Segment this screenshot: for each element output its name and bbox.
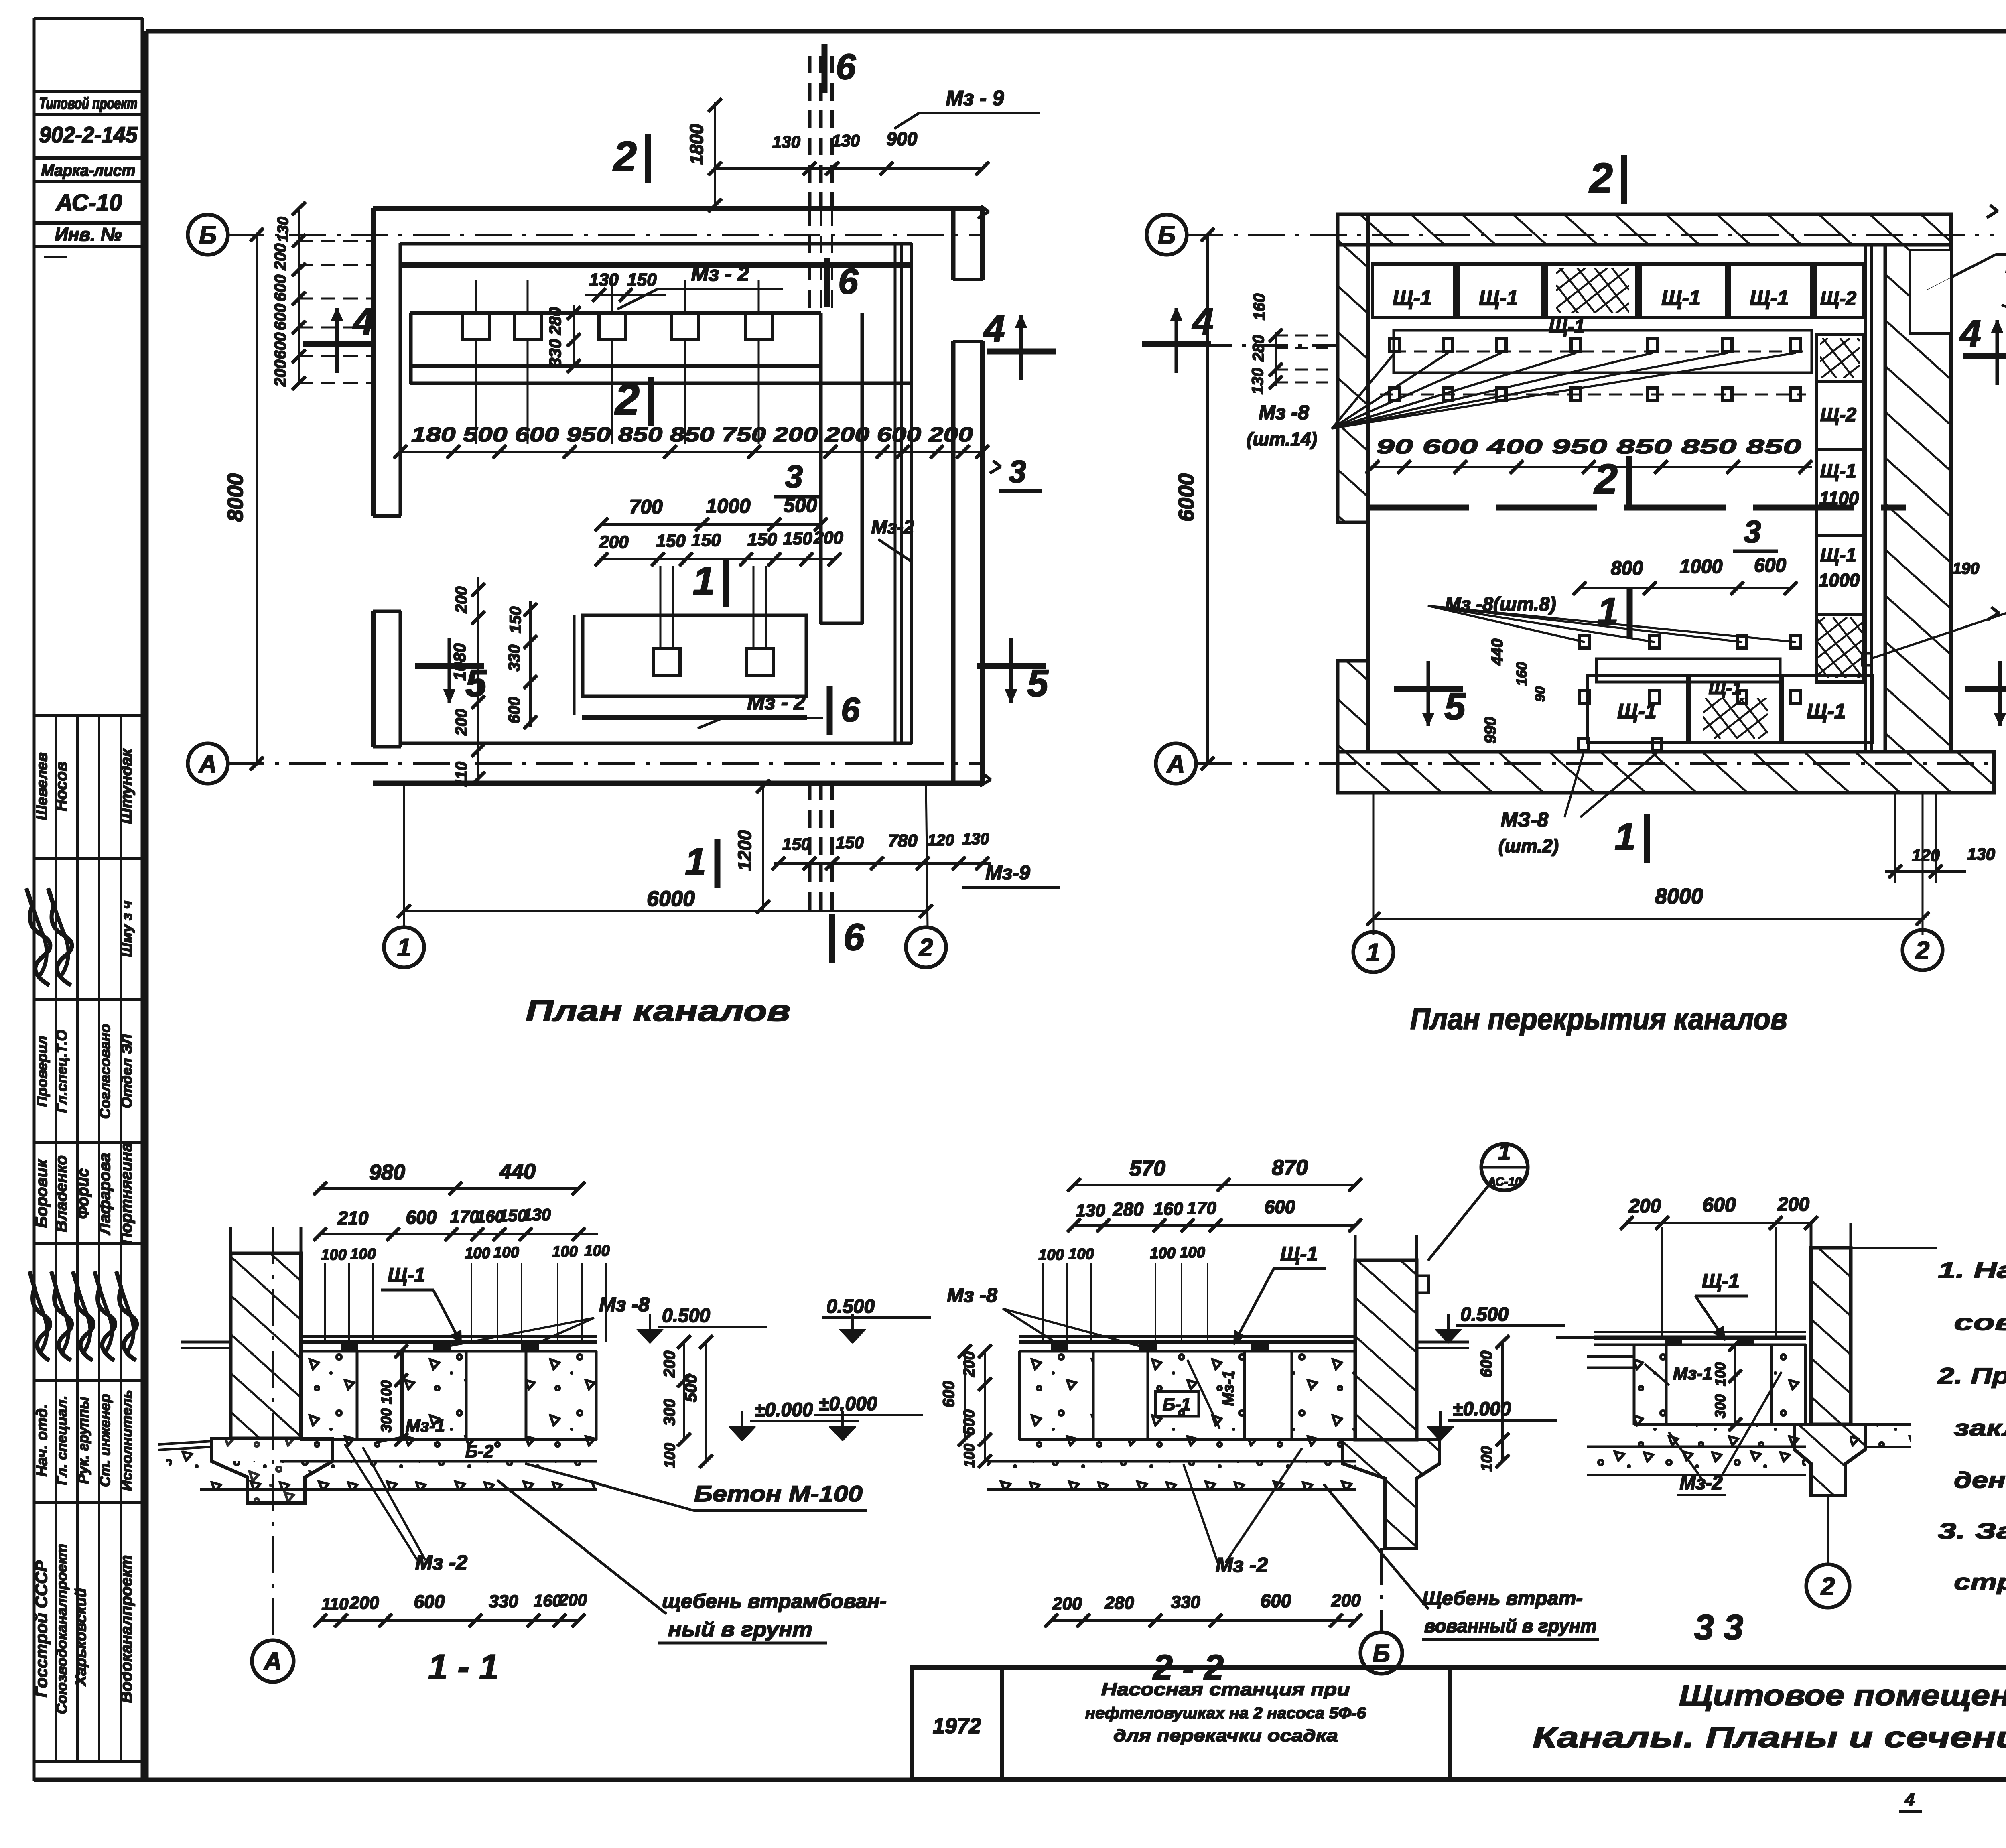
svg-text:150: 150: [747, 530, 777, 549]
svg-text:1: 1: [685, 841, 706, 883]
svg-text:200: 200: [272, 360, 289, 387]
svg-text:нефтеловушках на 2 насоса 5Ф-6: нефтеловушках на 2 насоса 5Ф-6: [1085, 1704, 1366, 1722]
svg-text:Штундак: Штундак: [118, 748, 135, 824]
svg-text:600: 600: [414, 1591, 445, 1612]
svg-text:Союзводоканалпроект: Союзводоканалпроект: [53, 1544, 70, 1714]
svg-text:600: 600: [940, 1381, 958, 1408]
svg-text:150: 150: [507, 607, 524, 634]
svg-text:0.500: 0.500: [826, 1296, 875, 1317]
svg-text:160: 160: [1513, 662, 1530, 686]
svg-text:Боровик: Боровик: [33, 1159, 51, 1228]
svg-text:А: А: [263, 1648, 282, 1675]
svg-text:280: 280: [546, 307, 564, 335]
svg-text:Мз-2: Мз-2: [871, 517, 914, 538]
svg-text:Щ-2: Щ-2: [1820, 404, 1856, 426]
svg-text:160: 160: [1251, 294, 1268, 321]
svg-text:160: 160: [534, 1591, 562, 1610]
svg-text:6: 6: [843, 916, 865, 959]
svg-text:6000: 6000: [1174, 473, 1198, 522]
svg-text:Мз-1: Мз-1: [1220, 1370, 1237, 1406]
svg-text:2. При производстве строител: 2. При производстве строительных работ: [1937, 1363, 2006, 1388]
svg-text:Щитовое помещение.: Щитовое помещение.: [1679, 1679, 2006, 1712]
svg-text:600: 600: [1261, 1590, 1291, 1611]
svg-text:3. Закладные марки Мз-1 укл: 3. Закладные марки Мз-1 укладывать: [1938, 1518, 2006, 1543]
svg-text:0.500: 0.500: [1460, 1304, 1509, 1325]
svg-text:Мз -2: Мз -2: [1216, 1554, 1268, 1577]
svg-text:2: 2: [919, 934, 933, 962]
svg-text:100: 100: [378, 1380, 394, 1404]
svg-text:100: 100: [1180, 1244, 1205, 1261]
svg-text:Б: Б: [1373, 1640, 1390, 1667]
svg-text:Носов: Носов: [53, 762, 70, 811]
svg-text:совместно с листами АС-3,: совместно с листами АС-3, АС-14.: [1954, 1310, 2006, 1335]
svg-text:Шевелев: Шевелев: [34, 752, 51, 820]
svg-text:200: 200: [1777, 1194, 1809, 1215]
svg-text:Каналы. Планы и сечения.: Каналы. Планы и сечения.: [1533, 1722, 2006, 1754]
svg-text:Мз-1: Мз-1: [1673, 1364, 1712, 1383]
svg-text:4: 4: [352, 300, 374, 343]
svg-text:(шт.2): (шт.2): [1498, 835, 1559, 856]
svg-text:200: 200: [349, 1593, 379, 1613]
svg-text:180 500 600 950 850 85: 180 500 600 950 850 850 750 200 200 600 …: [411, 423, 973, 446]
svg-text:Щ-1: Щ-1: [1820, 545, 1856, 566]
svg-text:980: 980: [369, 1160, 405, 1184]
svg-text:100: 100: [1478, 1446, 1495, 1471]
svg-text:Щ-1: Щ-1: [1820, 461, 1856, 482]
svg-text:МЗ-8: МЗ-8: [1501, 808, 1548, 831]
svg-text:дением электрика.: дением электрика.: [1954, 1467, 2006, 1493]
svg-text:130: 130: [772, 132, 800, 151]
svg-text:600: 600: [1265, 1196, 1295, 1217]
svg-text:6000: 6000: [647, 887, 695, 911]
svg-text:150: 150: [627, 270, 657, 290]
svg-text:1. Настоящий чертеж рассматр: 1. Настоящий чертеж рассматривать: [1938, 1257, 2006, 1283]
svg-text:Лафарова: Лафарова: [96, 1153, 114, 1236]
svg-text:280: 280: [1250, 335, 1267, 362]
svg-text:Мз - 2: Мз - 2: [691, 262, 749, 286]
svg-text:150: 150: [783, 529, 812, 548]
svg-text:АС-10: АС-10: [1487, 1175, 1522, 1188]
svg-text:3: 3: [1744, 514, 1761, 549]
svg-text:200: 200: [272, 244, 289, 271]
svg-text:2: 2: [1589, 155, 1613, 202]
svg-text:План перекрытия каналов: План перекрытия каналов: [1410, 1002, 1787, 1036]
svg-text:Мз - 9: Мз - 9: [946, 87, 1004, 110]
svg-text:1: 1: [1366, 939, 1380, 967]
svg-text:Щ-1: Щ-1: [1393, 286, 1432, 310]
svg-text:500: 500: [784, 494, 817, 516]
svg-text:130: 130: [832, 131, 860, 150]
svg-text:600: 600: [1702, 1194, 1736, 1216]
svg-text:440: 440: [1488, 639, 1506, 666]
svg-text:Мз-1: Мз-1: [406, 1416, 445, 1436]
svg-text:150: 150: [782, 835, 810, 853]
svg-text:АС-10: АС-10: [55, 190, 122, 216]
svg-text:600: 600: [406, 1207, 437, 1228]
svg-text:Инв. №: Инв. №: [55, 224, 122, 245]
svg-text:200: 200: [1628, 1196, 1661, 1217]
svg-text:6: 6: [838, 262, 859, 302]
svg-text:Мз - 2: Мз - 2: [747, 691, 806, 714]
svg-text:100: 100: [465, 1245, 490, 1262]
svg-text:Водоканалпроект: Водоканалпроект: [118, 1555, 135, 1703]
svg-text:4: 4: [1192, 300, 1214, 343]
svg-text:А: А: [198, 750, 217, 778]
svg-text:3 3: 3 3: [1694, 1607, 1743, 1647]
svg-text:Щ-1: Щ-1: [1807, 700, 1846, 723]
svg-text:570: 570: [1129, 1156, 1165, 1180]
svg-text:для перекачки осадка: для перекачки осадка: [1113, 1726, 1338, 1745]
svg-text:1: 1: [1498, 1139, 1511, 1164]
svg-text:130: 130: [1249, 368, 1267, 395]
svg-text:100: 100: [961, 1444, 977, 1468]
svg-text:1: 1: [1614, 816, 1636, 858]
svg-text:Мз-9: Мз-9: [985, 861, 1030, 884]
svg-text:130: 130: [1967, 845, 1995, 863]
svg-text:0.500: 0.500: [662, 1305, 710, 1326]
svg-text:600: 600: [272, 275, 289, 302]
svg-text:±0.000: ±0.000: [754, 1399, 813, 1421]
svg-text:Гл.спец.Т.О: Гл.спец.Т.О: [53, 1030, 70, 1113]
svg-text:5: 5: [465, 662, 487, 705]
svg-text:130: 130: [589, 270, 619, 290]
svg-text:90 600 400 950 850 850: 90 600 400 950 850 850 850: [1376, 435, 1801, 458]
svg-text:100: 100: [321, 1247, 346, 1263]
svg-text:Щ-1: Щ-1: [1479, 286, 1518, 310]
svg-text:600: 600: [272, 333, 289, 359]
svg-text:Портнягина: Портнягина: [118, 1143, 135, 1244]
svg-text:Мз -8: Мз -8: [1259, 401, 1309, 424]
svg-text:170: 170: [1187, 1198, 1216, 1218]
svg-text:Рук. группы: Рук. группы: [75, 1397, 91, 1484]
svg-text:4: 4: [1904, 1790, 1915, 1809]
svg-text:Щ-1: Щ-1: [388, 1264, 425, 1286]
svg-text:150: 150: [656, 531, 686, 551]
svg-text:1000: 1000: [1680, 556, 1723, 577]
svg-text:200: 200: [1052, 1594, 1082, 1614]
svg-text:Шму з ч: Шму з ч: [118, 900, 135, 957]
svg-text:1000: 1000: [1819, 570, 1860, 591]
svg-text:5: 5: [1444, 685, 1466, 728]
svg-text:100: 100: [1068, 1246, 1094, 1263]
svg-text:Марка-лист: Марка-лист: [41, 162, 136, 179]
svg-text:902-2-145: 902-2-145: [39, 122, 138, 147]
svg-text:200: 200: [558, 1590, 587, 1609]
svg-text:600: 600: [272, 304, 289, 331]
svg-text:А: А: [1166, 750, 1185, 778]
svg-text:Щ-1: Щ-1: [1750, 286, 1789, 310]
svg-text:100: 100: [1038, 1247, 1064, 1263]
svg-text:План каналов: План каналов: [526, 994, 790, 1028]
svg-text:160: 160: [1153, 1199, 1183, 1219]
svg-text:6: 6: [841, 691, 860, 729]
svg-text:Исполнитель: Исполнитель: [118, 1390, 135, 1491]
svg-text:Ст. инженер: Ст. инженер: [97, 1394, 113, 1487]
svg-text:170: 170: [450, 1207, 479, 1227]
svg-text:закладные марки укладывать: закладные марки укладывать под наблю-: [1954, 1415, 2006, 1440]
svg-text:Б: Б: [1158, 221, 1176, 249]
svg-text:300: 300: [661, 1399, 678, 1426]
svg-text:200: 200: [1331, 1591, 1361, 1610]
svg-text:2: 2: [1594, 456, 1618, 503]
svg-text:Владенко: Владенко: [53, 1155, 70, 1232]
svg-text:800: 800: [1611, 558, 1643, 579]
svg-text:200: 200: [453, 709, 470, 736]
svg-text:Отдел ЭЛ: Отдел ЭЛ: [118, 1034, 135, 1109]
svg-text:200: 200: [961, 1351, 978, 1377]
svg-text:100: 100: [493, 1244, 519, 1261]
svg-text:100: 100: [552, 1243, 577, 1260]
svg-text:2: 2: [613, 133, 637, 180]
svg-text:150: 150: [836, 833, 864, 852]
svg-text:8000: 8000: [1655, 884, 1703, 908]
svg-text:2: 2: [614, 375, 640, 424]
svg-text:Щ-1: Щ-1: [1549, 316, 1585, 337]
svg-text:Б-2: Б-2: [465, 1442, 494, 1461]
svg-text:1800: 1800: [686, 124, 707, 165]
svg-text:150: 150: [691, 530, 721, 550]
svg-text:200: 200: [453, 587, 470, 614]
svg-text:3: 3: [785, 459, 803, 494]
svg-text:Форис: Форис: [74, 1168, 92, 1219]
svg-text:1200: 1200: [734, 830, 755, 871]
svg-text:280: 280: [1104, 1593, 1134, 1613]
svg-text:100: 100: [584, 1243, 609, 1259]
svg-text:4: 4: [1959, 312, 1981, 355]
svg-text:130: 130: [1076, 1201, 1105, 1220]
svg-text:110: 110: [322, 1594, 349, 1613]
svg-text:100: 100: [1150, 1245, 1175, 1262]
svg-text:Щ-2: Щ-2: [1820, 288, 1856, 309]
svg-text:600: 600: [1478, 1351, 1495, 1378]
svg-text:2: 2: [1915, 937, 1929, 965]
svg-text:3: 3: [1009, 454, 1026, 489]
svg-text:Насосная станция при: Насосная станция при: [1101, 1679, 1350, 1699]
svg-text:Мз -8: Мз -8: [947, 1284, 997, 1306]
svg-text:130: 130: [962, 830, 989, 848]
svg-text:700: 700: [629, 496, 663, 518]
svg-text:вованный в грунт: вованный в грунт: [1424, 1615, 1597, 1636]
svg-text:Проверил: Проверил: [34, 1036, 50, 1107]
svg-text:870: 870: [1272, 1156, 1308, 1180]
svg-text:330: 330: [489, 1592, 518, 1611]
svg-text:2: 2: [1821, 1573, 1835, 1600]
svg-text:Щ-1: Щ-1: [1709, 678, 1742, 698]
svg-text:100: 100: [662, 1443, 678, 1468]
svg-text:200: 200: [599, 532, 629, 552]
svg-text:190: 190: [1953, 560, 1980, 577]
svg-text:Согласовано: Согласовано: [97, 1024, 113, 1119]
svg-text:280: 280: [1113, 1199, 1144, 1220]
svg-text:Мз -8: Мз -8: [599, 1293, 650, 1316]
svg-text:8000: 8000: [223, 473, 248, 522]
svg-text:210: 210: [337, 1208, 369, 1229]
svg-text:5: 5: [1027, 662, 1049, 705]
svg-text:330: 330: [546, 339, 564, 367]
svg-text:4: 4: [983, 307, 1005, 350]
svg-text:Б: Б: [199, 221, 217, 249]
svg-text:1 - 1: 1 - 1: [428, 1647, 499, 1687]
svg-text:300: 300: [1712, 1394, 1728, 1418]
svg-text:Щ-1: Щ-1: [1280, 1243, 1318, 1265]
svg-text:1000: 1000: [706, 495, 750, 517]
svg-text:780: 780: [888, 831, 918, 851]
svg-text:Мз -8(шт.8): Мз -8(шт.8): [1445, 594, 1556, 615]
svg-text:300: 300: [378, 1408, 394, 1432]
svg-text:Щ-1: Щ-1: [1617, 700, 1657, 723]
svg-text:Госстрой СССР: Госстрой СССР: [32, 1560, 51, 1697]
svg-text:2 - 2: 2 - 2: [1152, 1647, 1224, 1687]
svg-text:1972: 1972: [933, 1714, 981, 1738]
svg-text:Бетон М-100: Бетон М-100: [694, 1481, 863, 1506]
svg-text:440: 440: [499, 1160, 536, 1184]
svg-text:100: 100: [350, 1246, 376, 1263]
svg-text:Щ-1: Щ-1: [1661, 286, 1701, 310]
svg-text:1: 1: [692, 558, 715, 603]
svg-text:Харьковский: Харьковский: [73, 1588, 89, 1687]
svg-text:ный в грунт: ный в грунт: [668, 1618, 812, 1641]
svg-text:щебень втрамбован-: щебень втрамбован-: [662, 1590, 887, 1612]
svg-text:90: 90: [1533, 686, 1548, 702]
svg-text:110: 110: [453, 762, 470, 787]
svg-text:(шт.14): (шт.14): [1247, 428, 1317, 449]
svg-text:100: 100: [1712, 1362, 1728, 1386]
svg-text:Б-1: Б-1: [1163, 1395, 1191, 1414]
svg-text:130: 130: [275, 217, 292, 242]
svg-text:Щ-1: Щ-1: [1702, 1270, 1740, 1292]
svg-text:120: 120: [928, 831, 954, 849]
svg-text:строго по уровню.: строго по уровню.: [1954, 1569, 2006, 1594]
svg-text:200: 200: [813, 528, 843, 548]
svg-text:330: 330: [1171, 1592, 1200, 1612]
svg-text:500: 500: [961, 1409, 978, 1435]
svg-text:±0.000: ±0.000: [818, 1393, 877, 1415]
svg-text:330: 330: [506, 645, 523, 672]
svg-text:1: 1: [397, 934, 411, 962]
svg-text:600: 600: [506, 697, 523, 724]
svg-text:Нач. отд.: Нач. отд.: [34, 1404, 51, 1477]
svg-text:990: 990: [1482, 717, 1499, 744]
svg-text:Гл. специал.: Гл. специал.: [53, 1395, 70, 1485]
svg-text:130: 130: [523, 1205, 551, 1224]
svg-text:900: 900: [887, 128, 918, 149]
svg-text:Мз-2: Мз-2: [1679, 1472, 1722, 1494]
svg-text:6: 6: [836, 47, 856, 87]
svg-text:200: 200: [661, 1351, 678, 1378]
svg-text:600: 600: [1754, 555, 1786, 576]
svg-text:Щебень втрат-: Щебень втрат-: [1422, 1588, 1583, 1609]
svg-text:Типовой проект: Типовой проект: [39, 95, 138, 112]
